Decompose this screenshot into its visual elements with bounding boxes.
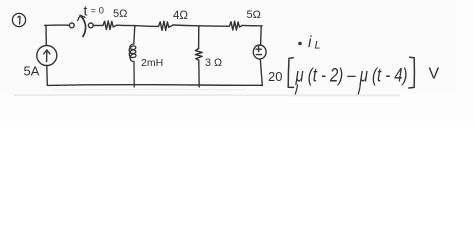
svg-text:2mH: 2mH: [141, 57, 163, 69]
wire: top-left horizontal (source to switch): [44, 24, 69, 26]
resistor R2 (4 ohm) zigzag: [159, 21, 174, 30]
switch SW1 t=0: [69, 15, 93, 36]
resistor R3 (3 ohm) vertical zigzag: [195, 49, 202, 61]
wire: R4 to top-right corner and down: [243, 25, 263, 45]
wire: left vertical branch: [46, 25, 47, 85]
svg-text:3 Ω: 3 Ω: [205, 57, 222, 69]
right bracket: [409, 57, 415, 88]
svg-text:5Ω: 5Ω: [247, 9, 261, 21]
faint scan smudge under bottom wire: [14, 94, 400, 96]
problem number badge (circled 1): [12, 13, 25, 26]
node A junction (inductor branch top): [134, 26, 135, 44]
svg-text:5Ω: 5Ω: [113, 8, 127, 20]
wire: inductor bottom lead: [133, 62, 135, 88]
bottom wire: [47, 84, 262, 87]
mu descender tails: [295, 85, 297, 94]
page background: [0, 0, 474, 121]
inductor L1 (2mH) coil: [129, 44, 136, 62]
current source I1 (5A): [37, 46, 57, 66]
wire: R2 to node B and on to R3: [173, 25, 229, 26]
voltage source V1: [253, 45, 266, 59]
svg-text:i: i: [308, 34, 312, 51]
wire: V1 bottom lead: [260, 59, 262, 86]
resistor R4 (5 ohm right) zigzag: [229, 21, 242, 30]
svg-text:= 0: = 0: [91, 6, 104, 17]
resistor R1 (5 ohm) zigzag: [103, 21, 117, 30]
svg-text:L: L: [315, 40, 321, 52]
svg-text:μ (t - 2) – μ (t - 4): μ (t - 2) – μ (t - 4): [295, 65, 408, 87]
wire: R1 to node A and on to R2: [117, 25, 159, 26]
wire: R3 bottom lead: [198, 60, 200, 87]
node B junction (3 ohm branch top): [198, 26, 200, 49]
node iL dot marker: [298, 42, 302, 46]
svg-text:V: V: [429, 66, 440, 83]
svg-text:5A: 5A: [24, 64, 40, 79]
svg-text:20: 20: [268, 69, 282, 84]
svg-text:4Ω: 4Ω: [173, 10, 188, 22]
wire: switch to R1: [93, 24, 103, 26]
svg-text:t: t: [84, 3, 88, 19]
switch blade arc with arrow: [80, 16, 85, 37]
left bracket: [288, 58, 293, 88]
